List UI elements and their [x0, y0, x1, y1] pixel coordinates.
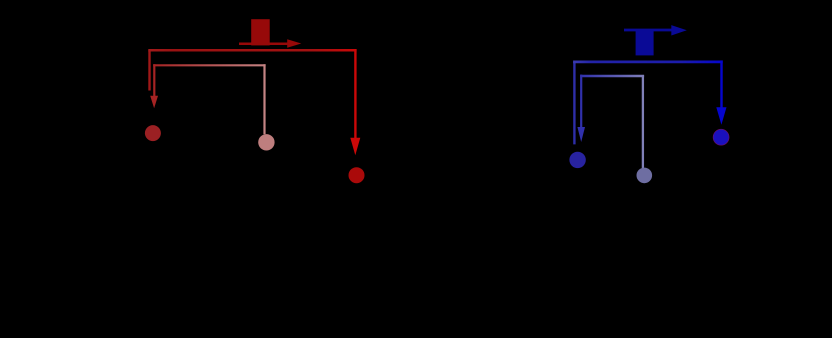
red inner path left vertical wire	[153, 64, 155, 96]
blue cart (block on rail)	[636, 30, 654, 55]
blue ball 4	[569, 152, 585, 168]
blue inner path top horizontal wire	[580, 75, 644, 77]
red ball 2 (faded, earliest)	[258, 134, 274, 150]
blue inner path left vertical wire	[580, 75, 582, 128]
red outer path top horizontal wire	[148, 49, 356, 52]
red outer path left vertical wire	[148, 50, 150, 90]
red velocity arrow v	[239, 39, 301, 48]
red inner path right vertical wire	[263, 64, 265, 134]
red outer path down arrowhead	[350, 138, 360, 156]
blue inner path right vertical wire	[642, 75, 644, 168]
blue ball 5 (faded, earliest)	[637, 168, 653, 184]
blue inner path down arrowhead	[577, 127, 585, 142]
red ball 1	[145, 125, 161, 141]
red cart (block on rail)	[251, 19, 270, 45]
red inner path top horizontal wire	[153, 64, 265, 66]
blue outer path right vertical wire	[720, 60, 722, 108]
blue ball 6 (latest)	[713, 129, 729, 145]
blue outer path down arrowhead	[716, 107, 726, 125]
blue outer path top horizontal wire	[573, 61, 723, 64]
blue velocity arrow v	[624, 25, 687, 35]
red inner path down arrowhead	[150, 96, 158, 109]
red ball 3 (latest)	[349, 167, 365, 183]
red outer path right vertical wire	[354, 49, 356, 139]
blue outer path left vertical wire	[573, 62, 575, 144]
